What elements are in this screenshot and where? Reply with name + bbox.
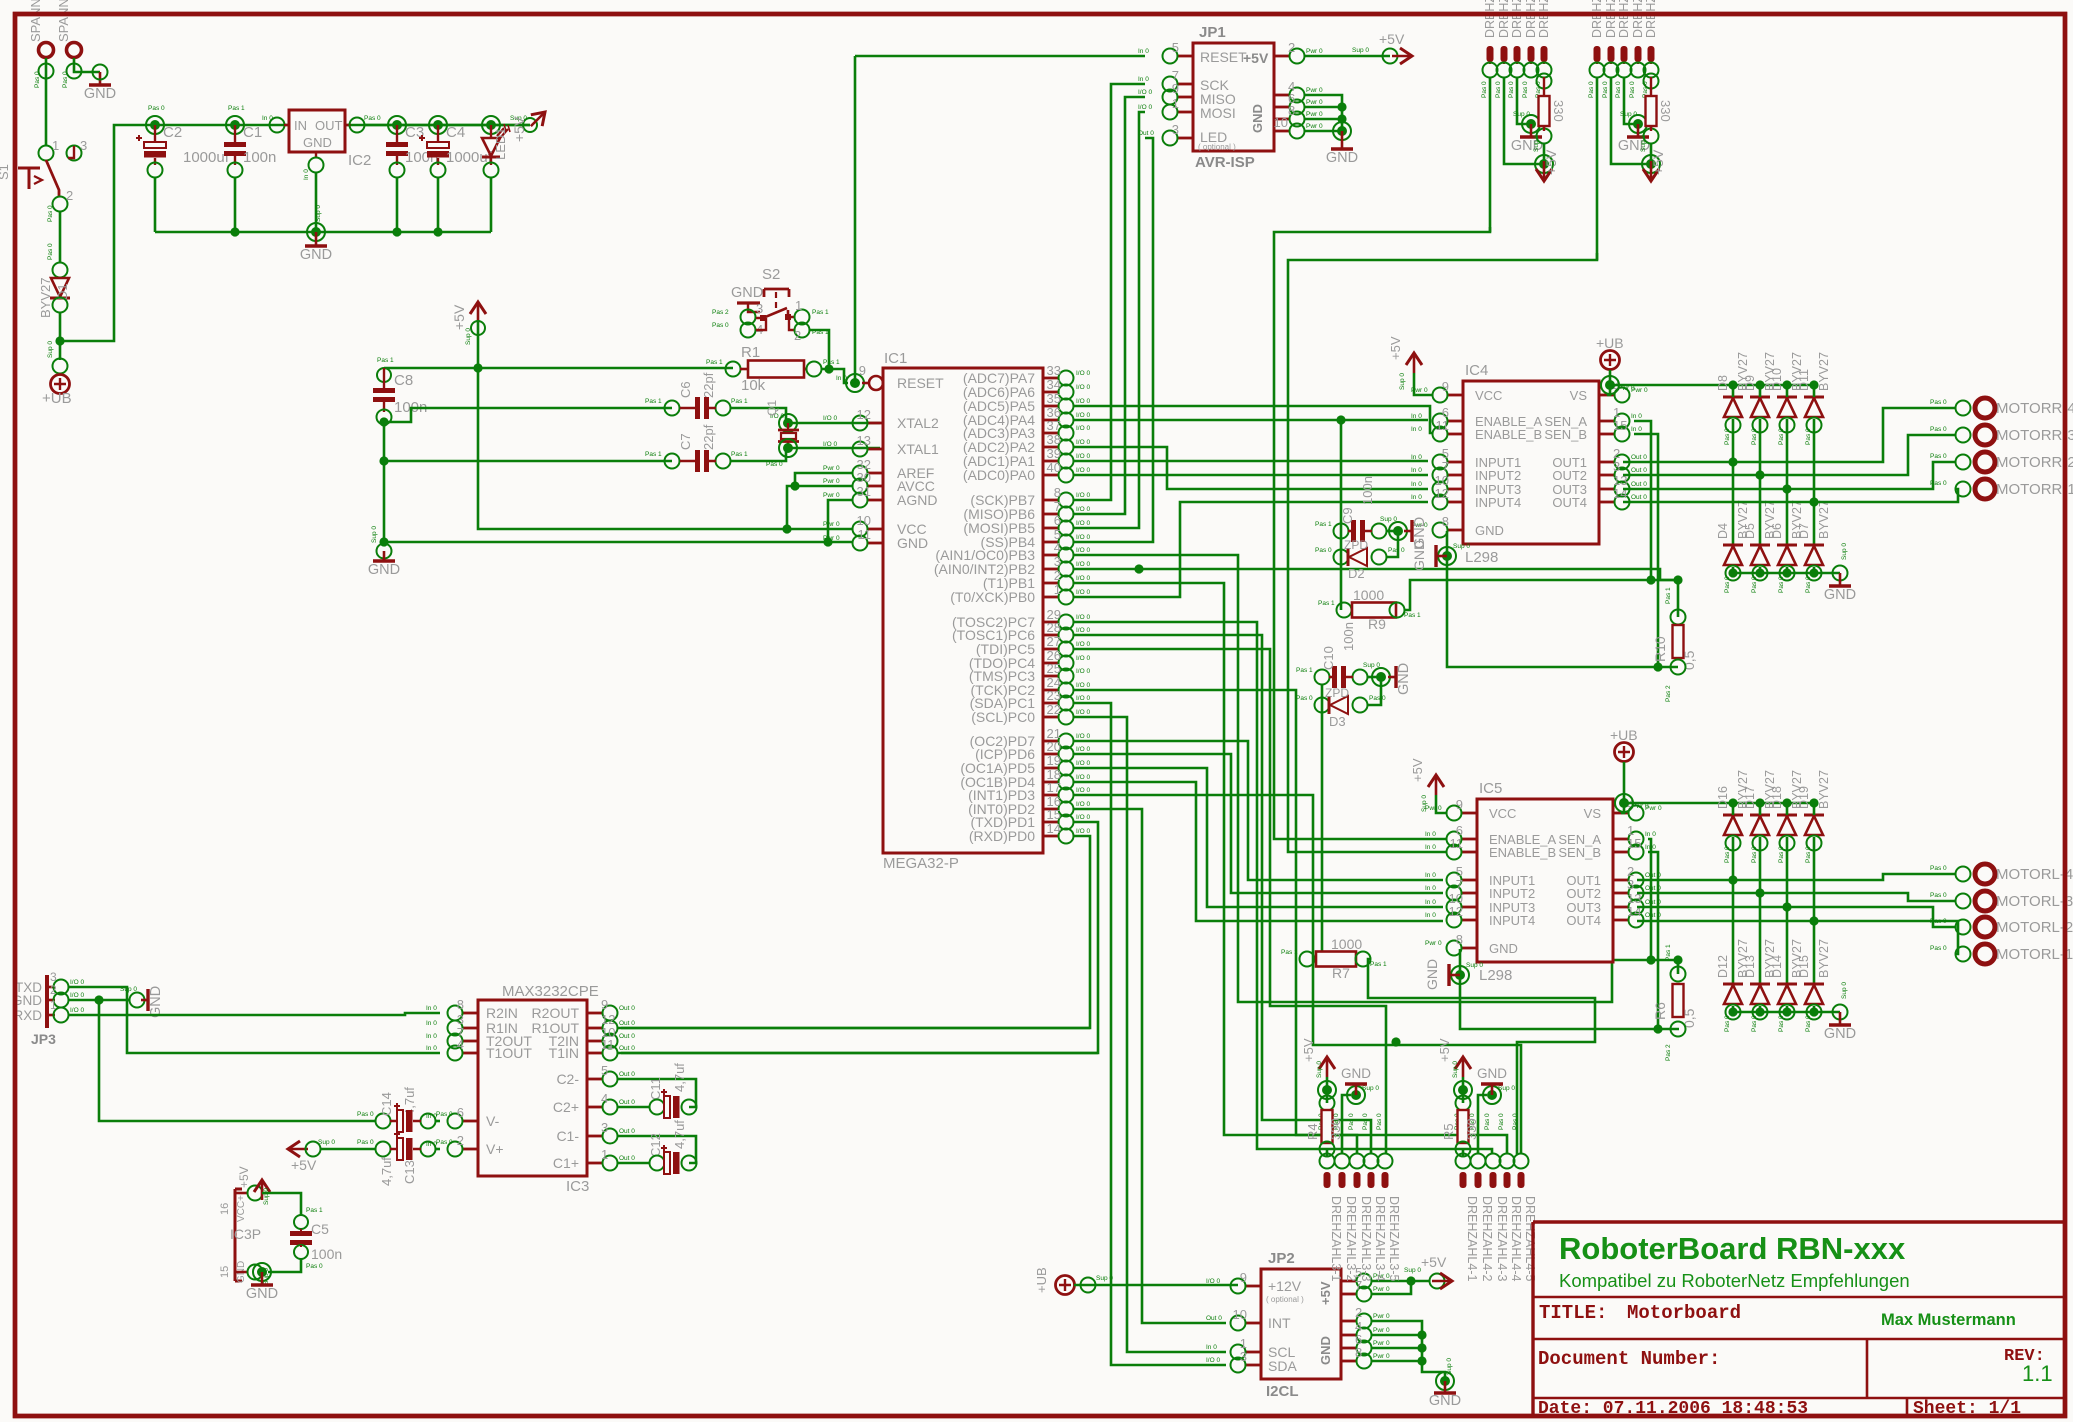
svg-text:8: 8 xyxy=(1442,514,1449,529)
wire PA2 to IC4 INPUT3 xyxy=(1074,447,1428,489)
IC4 pin 14 xyxy=(1599,501,1615,504)
IC3 pin R2OUT xyxy=(587,1012,603,1015)
svg-text:Pas 0: Pas 0 xyxy=(1369,695,1386,702)
svg-text:D14: D14 xyxy=(1770,955,1784,978)
IC5 pin 4 xyxy=(1613,812,1629,815)
svg-text:4: 4 xyxy=(1054,540,1061,555)
wire D3 right up xyxy=(1367,677,1381,705)
IC4 pin 11 xyxy=(1447,433,1463,436)
svg-text:1.1: 1.1 xyxy=(2022,1361,2053,1386)
junction c8 gnd row xyxy=(379,537,388,546)
junction R1/S2 xyxy=(824,364,833,373)
svg-text:Pas 1: Pas 1 xyxy=(645,398,662,405)
svg-text:Pas 0: Pas 0 xyxy=(1805,576,1812,593)
svg-text:INPUT2: INPUT2 xyxy=(1475,468,1521,483)
wire D1 to UB junction xyxy=(59,312,62,360)
svg-text:8: 8 xyxy=(1054,485,1061,500)
junction jp1 gnd8 xyxy=(1337,114,1346,123)
IC5 pin 1 xyxy=(1613,838,1629,841)
wire C8 to C6 xyxy=(384,408,672,422)
IC4 pin 7 xyxy=(1447,474,1463,477)
svg-text:GND: GND xyxy=(368,562,400,578)
svg-text:MOTORL-3: MOTORL-3 xyxy=(1996,893,2073,910)
ground GND jp3 xyxy=(130,993,145,1008)
resistor 330 dz1 xyxy=(1537,74,1552,89)
svg-text:Sup 0: Sup 0 xyxy=(47,341,54,358)
svg-text:BYV27: BYV27 xyxy=(1817,939,1831,978)
svg-text:3: 3 xyxy=(601,1120,608,1135)
svg-text:GND: GND xyxy=(1477,1066,1507,1081)
wire PC7 to DREHZAHL4-3 xyxy=(1074,622,1492,1154)
wire AVCC net xyxy=(787,486,853,529)
svg-text:Pas 0: Pas 0 xyxy=(1724,428,1731,445)
svg-text:19: 19 xyxy=(1047,753,1061,768)
IC1 pin XTAL2 xyxy=(867,422,883,425)
svg-text:+UB: +UB xyxy=(1034,1267,1049,1293)
junction node +UB xyxy=(55,336,64,345)
svg-text:I/O 0: I/O 0 xyxy=(1076,733,1090,740)
svg-text:39: 39 xyxy=(1047,446,1061,461)
svg-text:1000uf: 1000uf xyxy=(183,149,230,166)
junction dz4 gnd xyxy=(1483,1086,1501,1104)
wire C2- loop xyxy=(618,1079,696,1107)
svg-text:DREHZAHL3-2: DREHZAHL3-2 xyxy=(1344,1196,1358,1281)
wire R6 bottom gnd xyxy=(1460,949,1679,1029)
wire col1733a rail-diode xyxy=(1732,385,1735,397)
svg-text:In 0: In 0 xyxy=(1411,426,1422,433)
svg-text:Sup 0: Sup 0 xyxy=(318,1139,335,1146)
svg-text:Pas 1: Pas 1 xyxy=(1318,600,1335,607)
svg-text:MOTORL-4: MOTORL-4 xyxy=(1996,866,2073,883)
wire PD7 to IC5 INPUT1 xyxy=(1074,741,1443,880)
wire R1 to reset pin xyxy=(821,369,848,383)
svg-text:INT: INT xyxy=(1268,1315,1291,1331)
wire dz4 col1 xyxy=(1462,1149,1465,1154)
junction dz3 gnd xyxy=(1347,1086,1365,1104)
svg-text:DREHZAHL4-5: DREHZAHL4-5 xyxy=(1523,1196,1537,1281)
junction ic4 gnd rail xyxy=(1833,566,1848,581)
ground GND dz4 xyxy=(1491,1084,1494,1095)
wire xtal1 row xyxy=(384,460,672,463)
svg-text:Sup 0: Sup 0 xyxy=(465,328,472,345)
svg-text:Pas 1: Pas 1 xyxy=(823,359,840,366)
wire PA0 to IC4 INPUT2 xyxy=(1074,474,1428,477)
svg-text:OUT2: OUT2 xyxy=(1566,886,1601,901)
svg-text:In 0: In 0 xyxy=(262,115,273,122)
IC3 pin V- xyxy=(462,1120,478,1123)
svg-text:Pas 0: Pas 0 xyxy=(1615,81,1622,98)
svg-text:Pas 1: Pas 1 xyxy=(1315,521,1332,528)
svg-text:Sup 0: Sup 0 xyxy=(1513,111,1530,118)
svg-text:Pas 0: Pas 0 xyxy=(1629,81,1636,98)
wire AGND net xyxy=(828,500,853,542)
svg-text:Out 0: Out 0 xyxy=(1631,481,1647,488)
svg-text:I/O 0: I/O 0 xyxy=(1076,547,1090,554)
svg-text:+5V: +5V xyxy=(291,1157,317,1173)
svg-text:Max Mustermann: Max Mustermann xyxy=(1881,1311,2016,1329)
svg-text:ENABLE_B: ENABLE_B xyxy=(1489,845,1556,860)
svg-text:Pas 0: Pas 0 xyxy=(1498,1113,1505,1130)
svg-text:I/O 0: I/O 0 xyxy=(1076,695,1090,702)
svg-text:100n: 100n xyxy=(311,1246,342,1262)
svg-text:Pas 2: Pas 2 xyxy=(712,309,729,316)
svg-text:Pas 0: Pas 0 xyxy=(1930,453,1947,460)
svg-text:S2: S2 xyxy=(762,266,780,283)
svg-text:Sup 0: Sup 0 xyxy=(1404,1267,1421,1274)
wire JP2 gnd8 xyxy=(1371,1360,1422,1363)
wire R1OUT net xyxy=(618,1027,1090,1030)
svg-text:Pas 0: Pas 0 xyxy=(1930,480,1947,487)
svg-text:SEN_B: SEN_B xyxy=(1544,427,1587,442)
svg-text:3: 3 xyxy=(1172,122,1179,137)
svg-text:I/O 0: I/O 0 xyxy=(70,1007,84,1014)
junction rail col1733a xyxy=(1728,380,1737,389)
svg-text:Out 0: Out 0 xyxy=(1138,130,1154,137)
junction gnd IC2 xyxy=(307,223,325,241)
svg-text:Pas 0: Pas 0 xyxy=(1724,1015,1731,1032)
svg-text:D6: D6 xyxy=(1770,523,1784,539)
junction ic3p gnd xyxy=(253,1263,271,1281)
junction jp2 gnd8 xyxy=(1417,1356,1426,1365)
svg-text:Pwr 0: Pwr 0 xyxy=(1373,1286,1390,1293)
svg-text:OUT4: OUT4 xyxy=(1566,913,1601,928)
svg-text:DREHZAHL1-3: DREHZAHL1-3 xyxy=(1510,0,1524,38)
IC1 pin XTAL1 xyxy=(867,448,883,451)
svg-text:5: 5 xyxy=(1172,40,1179,55)
diode D10 BYV27 xyxy=(1777,396,1797,399)
wire C8 to gnd xyxy=(383,424,386,545)
svg-text:XTAL1: XTAL1 xyxy=(897,441,939,457)
svg-text:D15: D15 xyxy=(1797,955,1811,978)
capacitor C9 100n xyxy=(1334,524,1349,539)
diode D4 BYV27 xyxy=(1723,544,1743,547)
svg-text:Sup 0: Sup 0 xyxy=(1096,1275,1113,1282)
svg-text:35: 35 xyxy=(1047,391,1061,406)
wire col1787a column xyxy=(1786,419,1789,545)
svg-text:In 0: In 0 xyxy=(1631,413,1642,420)
svg-text:R4: R4 xyxy=(1305,1123,1320,1140)
junction jp2 gnd6 xyxy=(1417,1343,1426,1352)
svg-text:(SCL)PC0: (SCL)PC0 xyxy=(971,709,1035,725)
svg-text:ZPD: ZPD xyxy=(1344,538,1368,552)
svg-text:I/O 0: I/O 0 xyxy=(1076,506,1090,513)
svg-text:100n: 100n xyxy=(243,149,276,166)
svg-text:+5V: +5V xyxy=(1243,50,1269,66)
resistor R4 330 xyxy=(1320,1096,1335,1111)
svg-text:+UB: +UB xyxy=(42,390,72,407)
JP1 pin 1 xyxy=(1177,111,1193,114)
svg-text:In 0: In 0 xyxy=(836,375,847,382)
junction out col1760b xyxy=(1755,888,1764,897)
supply +5V dz2 xyxy=(1642,155,1660,173)
wire PB3 AIN1 to R6 node xyxy=(1074,555,1678,1002)
svg-text:ENABLE_B: ENABLE_B xyxy=(1475,427,1542,442)
svg-text:+5V: +5V xyxy=(1650,149,1666,175)
svg-text:Out 0: Out 0 xyxy=(619,1071,635,1078)
svg-text:2: 2 xyxy=(66,188,73,203)
svg-text:30: 30 xyxy=(857,470,871,485)
resistor R10 0,5 xyxy=(1671,610,1686,625)
svg-text:15: 15 xyxy=(219,1266,231,1278)
wire +UB to JP2 p9 xyxy=(1074,1284,1238,1287)
svg-text:( optional ): ( optional ) xyxy=(1198,143,1236,152)
svg-text:RESET: RESET xyxy=(1200,49,1247,65)
svg-text:R7: R7 xyxy=(1332,965,1350,981)
connector MOTORL-2 xyxy=(1956,920,1971,935)
svg-text:RXD: RXD xyxy=(13,1008,42,1023)
wire PB1 to DREHZAHL3-3 xyxy=(1074,583,1357,1154)
svg-text:INPUT2: INPUT2 xyxy=(1489,886,1535,901)
svg-text:Pas 0: Pas 0 xyxy=(357,1111,374,1118)
svg-text:DREHZAHL3-1: DREHZAHL3-1 xyxy=(1329,1196,1343,1281)
wire PD6 to IC5 INPUT2 xyxy=(1074,754,1443,893)
svg-text:MOSI: MOSI xyxy=(1200,105,1236,121)
wire PA4 to IC4 ENABLE_A xyxy=(1074,419,1428,422)
svg-text:In 0: In 0 xyxy=(1425,872,1436,879)
wire JP1 reset left xyxy=(855,55,1145,58)
svg-text:Pwr 0: Pwr 0 xyxy=(1306,111,1323,118)
svg-text:1: 1 xyxy=(601,1147,608,1162)
svg-text:2: 2 xyxy=(457,1133,464,1148)
capacitor C10 100n xyxy=(1315,670,1330,685)
diode D8 BYV27 xyxy=(1723,396,1743,399)
svg-text:Sup 0: Sup 0 xyxy=(1352,47,1369,54)
wire jp1 reset drop xyxy=(854,56,857,383)
svg-text:BYV27: BYV27 xyxy=(1817,352,1831,391)
wire col1733b rail-diode xyxy=(1732,803,1735,815)
junction r6 gnd xyxy=(1653,1024,1662,1033)
JP1 pin 10 xyxy=(1274,130,1290,133)
JP2 pin 7 xyxy=(1341,1293,1357,1296)
supply +5V dz4 xyxy=(1462,1057,1465,1077)
svg-text:8: 8 xyxy=(457,997,464,1012)
IC5 pin 5 xyxy=(1461,879,1477,882)
wire IC2 gnd down xyxy=(315,172,318,232)
wire col1787b rail-diode xyxy=(1786,803,1789,815)
svg-text:Pwr 0: Pwr 0 xyxy=(1306,123,1323,130)
regulator IC2 xyxy=(270,118,285,133)
capacitor C14 4,7uf xyxy=(376,1114,391,1129)
wire C1 to gnd rail xyxy=(234,177,237,232)
IC4 pin 3 xyxy=(1599,474,1615,477)
wire JP2 gnd4 xyxy=(1371,1334,1422,1337)
svg-text:GND: GND xyxy=(1424,959,1440,990)
connector DREHZAHL4 pads xyxy=(1460,1172,1467,1188)
svg-text:MOTORR-3: MOTORR-3 xyxy=(1996,427,2073,444)
svg-text:Pas 1: Pas 1 xyxy=(731,398,748,405)
svg-text:Pwr 0: Pwr 0 xyxy=(823,492,840,499)
svg-text:I/O 0: I/O 0 xyxy=(1076,655,1090,662)
wire R7 right path xyxy=(1368,959,1595,1154)
IC3 pin R1IN xyxy=(462,1027,478,1030)
wire C14 to V- xyxy=(435,1120,440,1123)
svg-text:100n: 100n xyxy=(1360,476,1375,505)
svg-text:GND: GND xyxy=(148,986,164,1018)
svg-text:Pas 0: Pas 0 xyxy=(712,322,729,329)
wire TXD net xyxy=(68,987,440,1053)
svg-text:+UB: +UB xyxy=(1610,727,1638,743)
ground GND ic3p xyxy=(261,1272,264,1284)
svg-text:Pwr 0: Pwr 0 xyxy=(823,478,840,485)
svg-text:12: 12 xyxy=(1435,486,1449,501)
svg-text:12: 12 xyxy=(1449,904,1463,919)
wire R10 bottom to gnd xyxy=(1447,531,1678,667)
svg-text:Pwr 0: Pwr 0 xyxy=(1373,1340,1390,1347)
svg-text:C6: C6 xyxy=(678,381,693,398)
svg-text:In 0: In 0 xyxy=(1645,831,1656,838)
svg-text:Sup 0: Sup 0 xyxy=(1841,543,1848,560)
svg-text:27: 27 xyxy=(1047,634,1061,649)
svg-text:R5: R5 xyxy=(1441,1123,1456,1140)
svg-text:7: 7 xyxy=(1456,877,1463,892)
svg-text:Pas 1: Pas 1 xyxy=(306,1207,323,1214)
junction C8 gnd2 xyxy=(379,456,388,465)
svg-text:Pas 0: Pas 0 xyxy=(1930,426,1947,433)
svg-text:BYV27: BYV27 xyxy=(38,278,53,318)
JP2 pin 9 xyxy=(1245,1285,1261,1288)
IC5 pin 12 xyxy=(1461,919,1477,922)
svg-text:In 0: In 0 xyxy=(1425,831,1436,838)
svg-text:I/O 0: I/O 0 xyxy=(1076,561,1090,568)
svg-text:DREHZAHL2-5: DREHZAHL2-5 xyxy=(1644,0,1658,38)
svg-text:Pwr 0: Pwr 0 xyxy=(823,521,840,528)
svg-text:GND: GND xyxy=(1489,941,1518,956)
IC1 pin AGND xyxy=(867,499,883,502)
svg-text:Pas 0: Pas 0 xyxy=(1805,846,1812,863)
svg-text:4,7uf: 4,7uf xyxy=(672,1063,687,1092)
wire dz3 r bot xyxy=(1326,1154,1329,1156)
diode D13 BYV27 xyxy=(1750,983,1770,986)
svg-text:D4: D4 xyxy=(1716,523,1730,539)
wire dz1 to IC5 ENABLE_A xyxy=(1274,227,1490,839)
wire col1733a column xyxy=(1732,419,1735,545)
wire JP1 gnd6 xyxy=(1304,106,1342,109)
svg-text:Sup 0: Sup 0 xyxy=(1453,543,1470,550)
svg-text:+5V: +5V xyxy=(1301,1038,1316,1062)
svg-text:IC1: IC1 xyxy=(884,350,907,367)
svg-text:Pas 0: Pas 0 xyxy=(1376,1113,1383,1130)
svg-text:I/O 0: I/O 0 xyxy=(1076,370,1090,377)
svg-text:8: 8 xyxy=(1288,103,1295,118)
svg-text:Pas 0: Pas 0 xyxy=(1930,945,1947,952)
svg-text:I/O 0: I/O 0 xyxy=(1076,425,1090,432)
svg-text:330: 330 xyxy=(1551,100,1566,122)
wire PB0 to IC4 INPUT4 xyxy=(1074,502,1428,597)
junction rail col1814a xyxy=(1809,380,1818,389)
svg-text:Pas 1: Pas 1 xyxy=(1665,944,1672,961)
svg-text:DREHZAHL2-1: DREHZAHL2-1 xyxy=(1590,0,1604,38)
ground GND ic4 diodes xyxy=(1839,573,1842,585)
svg-text:D12: D12 xyxy=(1716,955,1730,978)
wire col1733a to botrail xyxy=(1732,567,1735,573)
IC5 pin 15 xyxy=(1613,851,1629,854)
IC4 pin 15 xyxy=(1599,433,1615,436)
junction gnd C3 xyxy=(392,227,401,236)
svg-text:Sup 0: Sup 0 xyxy=(371,526,378,543)
junction out col1814b xyxy=(1809,916,1818,925)
svg-text:D7: D7 xyxy=(1797,523,1811,539)
wire jp3 gnd to v- xyxy=(99,1000,376,1121)
svg-text:I/O 0: I/O 0 xyxy=(1076,760,1090,767)
svg-text:Pas 0: Pas 0 xyxy=(1388,547,1405,554)
wire crystal to xtal2 xyxy=(788,422,880,425)
wire dz2 res to +5V xyxy=(1650,143,1653,164)
svg-text:Pwr 0: Pwr 0 xyxy=(823,535,840,542)
junction gnd C1 xyxy=(230,227,239,236)
svg-text:MOTORR-4: MOTORR-4 xyxy=(1996,400,2073,417)
svg-text:DREHZAHL3-4: DREHZAHL3-4 xyxy=(1373,1196,1387,1281)
svg-text:C13: C13 xyxy=(402,1160,417,1184)
svg-text:Motorboard: Motorboard xyxy=(1627,1302,1741,1324)
supply +5V dz1 xyxy=(1535,155,1553,173)
svg-text:ZPD: ZPD xyxy=(1325,686,1349,700)
wire SCK net xyxy=(1074,84,1145,500)
capacitor C4 1000uf xyxy=(427,142,449,148)
junction avcc drop xyxy=(782,524,791,533)
svg-text:Pas 0: Pas 0 xyxy=(1930,865,1947,872)
diode D12 BYV27 xyxy=(1723,983,1743,986)
svg-text:I/O 0: I/O 0 xyxy=(1076,439,1090,446)
svg-text:1: 1 xyxy=(1054,582,1061,597)
IC4 pin 1 xyxy=(1599,420,1615,423)
svg-text:Sup 0: Sup 0 xyxy=(1498,1085,1515,1092)
svg-text:OUT: OUT xyxy=(315,118,343,133)
svg-text:6: 6 xyxy=(457,1105,464,1120)
wire col1814a to botrail xyxy=(1813,567,1816,573)
ground GND main rail xyxy=(315,232,318,245)
wire ic4 diode rail xyxy=(1610,384,1814,387)
svg-text:MOTORL-1: MOTORL-1 xyxy=(1996,946,2073,963)
diode D6 BYV27 xyxy=(1777,544,1797,547)
wire OUT to MOTORR-3 xyxy=(1623,435,1955,475)
svg-text:10: 10 xyxy=(1233,1307,1247,1322)
svg-text:In 0: In 0 xyxy=(1411,494,1422,501)
svg-text:13: 13 xyxy=(857,433,871,448)
svg-text:INPUT4: INPUT4 xyxy=(1475,495,1521,510)
svg-text:(T0/XCK)PB0: (T0/XCK)PB0 xyxy=(950,589,1035,605)
svg-text:Out 0: Out 0 xyxy=(619,1128,635,1135)
svg-text:I/O 0: I/O 0 xyxy=(1076,467,1090,474)
svg-text:IC2: IC2 xyxy=(348,152,371,169)
svg-text:(ADC0)PA0: (ADC0)PA0 xyxy=(963,467,1035,483)
svg-text:SDA: SDA xyxy=(1268,1358,1297,1374)
svg-text:In 0: In 0 xyxy=(426,1005,437,1012)
svg-text:IC4: IC4 xyxy=(1465,362,1488,379)
svg-text:OUT4: OUT4 xyxy=(1552,495,1587,510)
diode D18 BYV27 xyxy=(1777,814,1797,817)
svg-text:VCC+: VCC+ xyxy=(236,1195,247,1222)
svg-text:AVR-ISP: AVR-ISP xyxy=(1195,154,1255,171)
wire PC1 SDA net xyxy=(1074,703,1226,1365)
JP1 pin 6 xyxy=(1274,106,1290,109)
JP2 pin 6 xyxy=(1341,1347,1357,1350)
wire dz4 r bot xyxy=(1462,1154,1465,1156)
svg-text:14: 14 xyxy=(1047,821,1061,836)
wire C10 to gnd xyxy=(1367,676,1381,679)
svg-text:+UB: +UB xyxy=(1596,335,1624,351)
svg-text:In 0: In 0 xyxy=(1411,481,1422,488)
svg-text:12: 12 xyxy=(857,407,871,422)
IC4 pin 5 xyxy=(1447,461,1463,464)
svg-text:R2IN: R2IN xyxy=(486,1005,518,1021)
svg-text:1: 1 xyxy=(52,138,59,153)
svg-text:Out 0: Out 0 xyxy=(1631,454,1647,461)
junction xtal2 node xyxy=(779,414,797,432)
svg-text:DREHZAHL2-3: DREHZAHL2-3 xyxy=(1617,0,1631,38)
svg-text:Pas 1: Pas 1 xyxy=(645,451,662,458)
svg-text:C1+: C1+ xyxy=(553,1155,579,1171)
svg-text:R10: R10 xyxy=(1652,636,1668,662)
